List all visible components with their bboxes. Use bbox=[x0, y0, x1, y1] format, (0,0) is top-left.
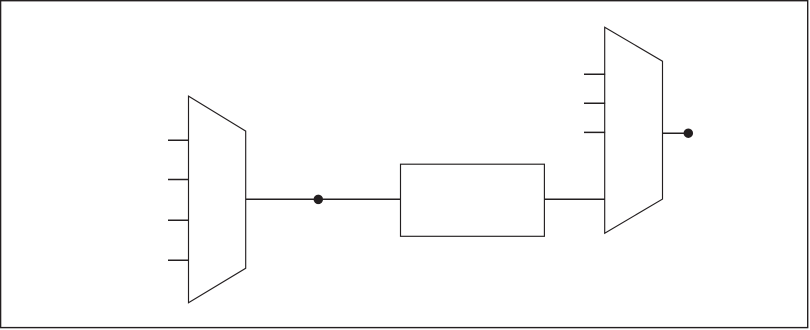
junction node dot B bbox=[684, 128, 694, 138]
M2 input pin stub 2 bbox=[584, 102, 605, 104]
M1 input pin stub 1 bbox=[168, 139, 189, 141]
wire from M1 output to block U1 bbox=[246, 198, 401, 200]
M1 input pin stub 4 bbox=[168, 259, 189, 261]
M2 input pin stub 1 bbox=[584, 73, 605, 75]
M2 input pin stub 3 bbox=[584, 131, 605, 133]
wire from M2 output to node B bbox=[663, 132, 687, 134]
M1 input pin stub 3 bbox=[168, 219, 189, 221]
wire from U1 to M2 bbox=[544, 198, 604, 200]
block U1 (rectangular functional unit) bbox=[401, 164, 545, 236]
multiplexor M1 (left mux trapezoid) bbox=[189, 96, 246, 303]
junction node dot A bbox=[314, 195, 324, 205]
M1 input pin stub 2 bbox=[168, 179, 189, 181]
multiplexor M2 (right mux trapezoid) bbox=[605, 27, 663, 233]
